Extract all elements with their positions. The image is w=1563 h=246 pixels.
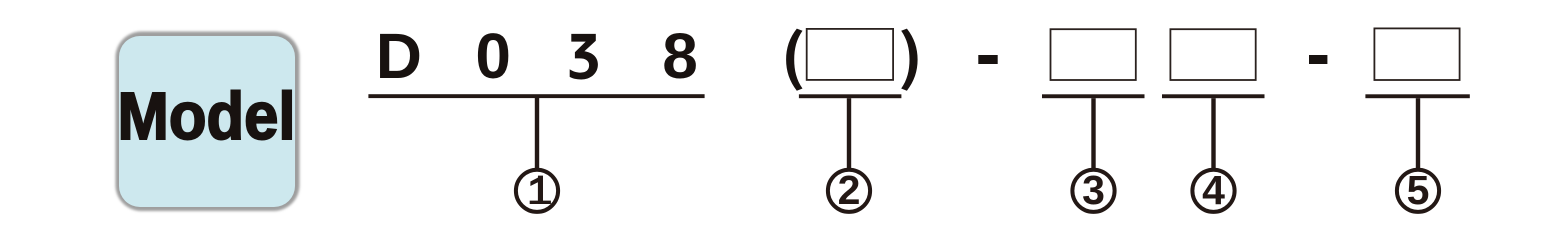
- svg-text:Model: Model: [118, 79, 296, 154]
- model badge shadow ring: [116, 32, 300, 212]
- circled number 5: [1397, 167, 1439, 213]
- svg-text:5: 5: [1407, 167, 1430, 213]
- svg-text:4: 4: [1202, 167, 1225, 213]
- model code digit 8: [662, 20, 698, 92]
- svg-text:3: 3: [1082, 167, 1105, 213]
- hyphen 1: [978, 55, 997, 64]
- model code letter D: [376, 20, 422, 92]
- underline 3: [1042, 94, 1145, 98]
- circled number 2: [828, 167, 870, 213]
- model code digit 0: [475, 20, 511, 92]
- label Model: [118, 79, 296, 154]
- hyphen 2: [1309, 55, 1327, 64]
- right parenthesis: [901, 29, 917, 91]
- circled number 4: [1192, 167, 1234, 213]
- underline 1: [368, 94, 704, 98]
- callout line 3: [1091, 98, 1095, 169]
- left parenthesis: [786, 29, 802, 91]
- model badge: [119, 36, 295, 207]
- box 2: [807, 29, 893, 80]
- circled number 1: [516, 170, 558, 212]
- svg-text:0: 0: [475, 20, 511, 92]
- svg-text:D: D: [376, 20, 422, 92]
- callout line 4: [1211, 98, 1215, 169]
- callout line 1: [535, 98, 539, 169]
- box 4: [1170, 29, 1255, 80]
- box 3: [1051, 29, 1136, 80]
- underline 5: [1365, 94, 1469, 98]
- callout line 2: [847, 98, 851, 169]
- underline 2: [799, 94, 902, 98]
- model code digit 3: [570, 34, 598, 80]
- box 5: [1374, 28, 1459, 80]
- svg-text:2: 2: [838, 167, 861, 213]
- svg-text:8: 8: [662, 20, 698, 92]
- circled number 3: [1072, 167, 1114, 213]
- callout line 5: [1416, 98, 1420, 169]
- underline 4: [1162, 94, 1265, 98]
